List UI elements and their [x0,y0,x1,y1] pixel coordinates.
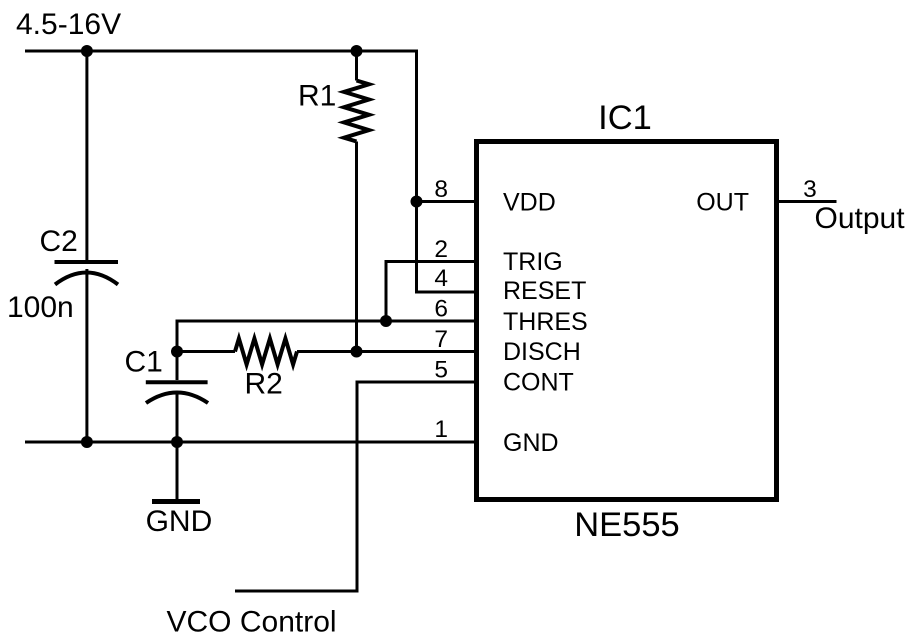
svg-text:C2: C2 [40,225,78,258]
svg-text:NE555: NE555 [574,506,680,544]
svg-text:C1: C1 [125,346,163,379]
svg-text:4: 4 [434,265,448,292]
svg-text:1: 1 [434,416,448,443]
svg-text:8: 8 [434,176,448,203]
svg-text:100n: 100n [7,291,74,324]
svg-text:R1: R1 [298,80,336,113]
svg-text:5: 5 [434,357,448,384]
svg-text:R2: R2 [245,368,283,401]
svg-text:3: 3 [803,176,817,203]
svg-text:7: 7 [434,326,448,353]
svg-text:OUT: OUT [696,189,749,217]
svg-text:2: 2 [434,236,448,263]
svg-text:VCO Control: VCO Control [167,606,337,639]
svg-text:GND: GND [146,505,213,538]
svg-text:Output: Output [815,202,906,235]
svg-text:IC1: IC1 [598,99,652,137]
svg-text:GND: GND [503,429,559,457]
svg-text:6: 6 [434,296,448,323]
svg-text:RESET: RESET [503,277,586,305]
svg-text:THRES: THRES [503,308,588,336]
svg-text:CONT: CONT [503,369,574,397]
svg-text:4.5-16V: 4.5-16V [16,8,121,41]
svg-text:VDD: VDD [503,189,556,217]
svg-text:TRIG: TRIG [503,248,563,276]
svg-text:DISCH: DISCH [503,338,581,366]
